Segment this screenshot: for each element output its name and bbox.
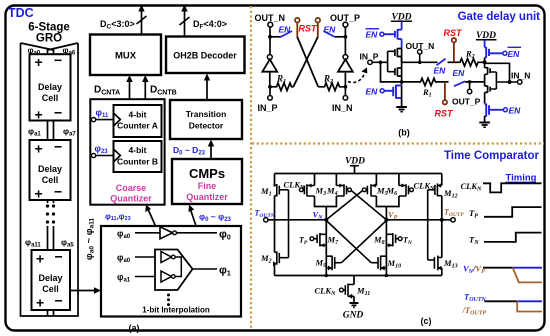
svg-text:EN: EN xyxy=(324,25,337,35)
wire OUT_N node to switch xyxy=(270,36,281,38)
waveform T_P xyxy=(484,207,542,217)
svg-text:4-bit: 4-bit xyxy=(129,145,147,155)
ellipsis dots below polygon xyxy=(167,294,170,307)
svg-text:−: − xyxy=(55,249,63,265)
crossing wire X right-to-left xyxy=(293,37,318,87)
svg-text:EN: EN xyxy=(508,49,521,59)
wire switch to OUT_P to inverter xyxy=(465,81,485,83)
ground symbol (c) xyxy=(353,296,355,303)
transistor PMOS ENbar (blue, left) xyxy=(384,29,402,39)
inverter U1 gate line xyxy=(381,51,395,71)
waveform T_N xyxy=(484,233,542,242)
lower wire rail to R1 xyxy=(402,81,419,83)
M5/M6 drain bus to V_P xyxy=(376,196,399,207)
inverter U1 NMOS xyxy=(395,68,402,77)
wire interpolation to coarse quantizer arrow xyxy=(148,208,156,226)
terminal OUT_P (transistor level) xyxy=(468,80,472,84)
row3 wire in xyxy=(135,276,155,278)
svg-text:EN: EN xyxy=(453,68,466,78)
svg-text:−: − xyxy=(55,293,63,309)
bus slash on D_C xyxy=(137,16,147,24)
junction on IN_N wire xyxy=(508,80,512,84)
switch EN left xyxy=(281,31,293,37)
svg-text:OUT_P: OUT_P xyxy=(452,97,481,107)
svg-text:Gate delay unit: Gate delay unit xyxy=(458,11,541,23)
wire MUX output arrow up xyxy=(141,8,143,35)
inner inverter A xyxy=(161,252,172,263)
svg-text:EN: EN xyxy=(366,87,379,97)
delay cell 3 xyxy=(32,249,71,311)
4-bit Counter A box xyxy=(114,105,162,137)
inverter U2 output column xyxy=(484,74,486,86)
cross wire V_P to M9 gate xyxy=(341,221,386,263)
Coarse Quantizer outer box xyxy=(90,99,164,205)
svg-text:Detector: Detector xyxy=(189,121,224,131)
svg-text:Delay: Delay xyxy=(38,273,62,283)
transistor M9 xyxy=(326,256,341,271)
row1 wire out xyxy=(177,232,218,234)
svg-text:1-bit Interpolation: 1-bit Interpolation xyxy=(142,306,210,315)
svg-text:RST: RST xyxy=(299,24,319,34)
wire after switch xyxy=(448,61,459,63)
svg-text:Cell: Cell xyxy=(42,93,59,103)
terminal IN_N (transistor level) xyxy=(518,80,522,84)
upper wire OUT_N to R2 xyxy=(402,61,438,63)
transistor NMOS EN (blue, bottom right) xyxy=(485,104,504,117)
junction node at lower rail xyxy=(400,80,404,84)
GRO crossing wires at top (bowtie) xyxy=(21,43,54,50)
svg-text:OH2B Decoder: OH2B Decoder xyxy=(173,51,237,61)
RST terminal right xyxy=(316,18,321,23)
transistor M10 xyxy=(371,256,386,271)
M3/M4 drain bus to V_N xyxy=(315,196,337,207)
wire counterA to MUX arrow xyxy=(129,78,131,105)
inverter U1 PMOS xyxy=(395,48,402,57)
transistor M3 xyxy=(314,174,316,186)
panel divider vertical dashed xyxy=(250,6,252,330)
row1 wire in xyxy=(135,232,160,234)
row2 wire in xyxy=(135,256,155,258)
svg-text:EN: EN xyxy=(279,25,292,35)
svg-text:Counter B: Counter B xyxy=(117,157,158,167)
wire delay cell1 to cell2 right xyxy=(53,121,55,141)
GRO loop right rail wire xyxy=(77,43,79,316)
svg-text:(a): (a) xyxy=(129,323,140,333)
MUX box xyxy=(90,35,161,76)
resistor R2 (transistor level) xyxy=(459,59,485,66)
resistor R2 (panel b abstraction) xyxy=(318,83,345,91)
wire stub into delay cell 1 right xyxy=(53,49,55,55)
crossing wire X left-to-right xyxy=(297,37,318,87)
transistor M4 xyxy=(335,174,337,186)
1-bit Interpolation box xyxy=(101,226,241,317)
RST terminal lower xyxy=(444,82,446,100)
svg-text:DC<3:0>: DC<3:0> xyxy=(100,19,135,31)
svg-text:Fine: Fine xyxy=(198,181,217,191)
svg-text:EN: EN xyxy=(509,105,522,115)
cross-coupling wire M4 gate to V_P xyxy=(351,191,386,220)
wire down to inverter xyxy=(401,39,403,49)
wire stubs below cell3 to loop bottom xyxy=(47,310,49,316)
inner inverter B xyxy=(161,271,172,282)
inverter row1 xyxy=(160,227,173,239)
svg-text:MUX: MUX xyxy=(115,51,137,62)
wire IN_P node down to lower rail xyxy=(381,62,402,82)
cross wire V_N to M10 gate xyxy=(326,221,371,263)
junction dots bottom rail xyxy=(325,274,328,277)
node R2/PMOS junction xyxy=(484,57,486,67)
transistor M11 xyxy=(353,276,355,285)
svg-text:+: + xyxy=(35,107,43,123)
wire OUT_N down xyxy=(269,27,271,37)
wire NMOS to EN nmos xyxy=(484,92,486,103)
dashed zoom arrow xyxy=(348,71,366,83)
input phi_11 terminal and wire xyxy=(92,118,96,122)
OH2B Decoder box xyxy=(166,37,245,74)
wire delay cell3 output arrow to interpolation xyxy=(70,290,96,292)
svg-text:(b): (b) xyxy=(398,128,410,138)
loop wire to IN_N xyxy=(485,63,510,82)
junction node OUT_P xyxy=(344,35,348,39)
ground symbol right column xyxy=(479,123,490,128)
VDD rail xyxy=(275,173,442,175)
resistor R1 (transistor level) xyxy=(419,78,440,85)
GRO loop bottom wire xyxy=(20,315,79,317)
inverter U1 output column xyxy=(401,49,403,63)
switch EN right xyxy=(324,31,336,37)
svg-text:DF<4:0>: DF<4:0> xyxy=(193,19,227,31)
svg-text:IN_P: IN_P xyxy=(258,103,278,113)
M12/M13 gate line xyxy=(427,190,429,260)
GRO loop left rail wire xyxy=(20,43,22,316)
waveform V_N (blue) and V_P (brown) xyxy=(483,267,513,269)
V_N wire left xyxy=(268,219,326,221)
transistor PMOS ENbar (blue, right) xyxy=(485,47,503,58)
svg-text:GND: GND xyxy=(343,311,364,321)
CMPs Fine Quantizer box xyxy=(172,159,242,204)
wire delay cell1 to cell2 left xyxy=(47,121,49,141)
terminal IN_P xyxy=(269,87,271,96)
wire interpolation to CMPs arrow xyxy=(190,208,196,226)
row2/3 output wire xyxy=(193,268,218,270)
svg-text:+: + xyxy=(35,141,43,157)
RST terminal upper xyxy=(452,38,456,42)
joining wire of inner inverters xyxy=(175,257,181,277)
wire to ground right xyxy=(484,116,486,123)
svg-text:−: − xyxy=(54,105,62,121)
junction at R2 right xyxy=(344,85,348,89)
transistor M12 xyxy=(441,174,443,186)
svg-text:RST: RST xyxy=(435,109,455,119)
terminal T_OUTP xyxy=(451,218,455,222)
buffer inverter right (up) xyxy=(344,37,346,55)
transistor M2 xyxy=(274,196,276,253)
ellipsis dots between delay cells xyxy=(46,204,55,223)
svg-text:4-bit: 4-bit xyxy=(129,110,147,120)
RST terminal left xyxy=(295,18,300,23)
wire R1 to RST junction xyxy=(440,81,449,83)
wire stubs above cell3 xyxy=(47,226,49,250)
waveform T_OUTN (blue) and /T_OUTP (brown) xyxy=(484,300,517,302)
buffer inverter left (up) xyxy=(269,37,271,55)
svg-text:+: + xyxy=(35,54,43,70)
counter B clock wedge xyxy=(114,149,121,162)
svg-text:IN_N: IN_N xyxy=(332,103,353,113)
svg-text:RST: RST xyxy=(444,28,464,38)
inverter U2 gate line xyxy=(490,72,517,89)
input phi_23 terminal and wire xyxy=(92,153,96,157)
svg-text:Quantizer: Quantizer xyxy=(186,192,228,202)
svg-text:+: + xyxy=(36,295,44,311)
svg-text:(c): (c) xyxy=(421,316,432,326)
delay cell 2 xyxy=(30,139,71,202)
wire to ground xyxy=(401,85,403,107)
svg-text:Delay: Delay xyxy=(38,164,62,174)
ground symbol left column xyxy=(396,107,407,112)
switch EN upper xyxy=(437,59,446,66)
wire CMPs to TD arrow xyxy=(210,143,212,160)
svg-text:Coarse: Coarse xyxy=(116,183,147,193)
svg-text:Transition: Transition xyxy=(186,109,227,119)
terminal IN_N xyxy=(344,87,346,96)
junction at R1 left xyxy=(268,85,272,89)
wire decoder output arrow up xyxy=(184,8,186,37)
counter A clock wedge xyxy=(114,113,121,126)
delay cell 1 xyxy=(30,52,71,123)
svg-text:−: − xyxy=(54,139,62,155)
inverter U2 NMOS xyxy=(485,86,491,93)
wire TD to decoder arrow xyxy=(206,76,208,100)
svg-text:EN: EN xyxy=(434,66,447,76)
transistor M6 xyxy=(398,174,400,186)
resistor R1 (panel b abstraction) xyxy=(270,83,294,91)
svg-text:+: + xyxy=(35,186,43,202)
wire counterA to counterB stub xyxy=(143,137,145,141)
wire OUT_P node to switch xyxy=(335,36,345,38)
waveform CLK_N xyxy=(483,183,542,192)
svg-text:IN_N: IN_N xyxy=(511,71,530,81)
inverter U2 (right, mirrored) PMOS xyxy=(485,67,491,74)
transistor NMOS EN (blue, bottom left) xyxy=(384,85,401,99)
interpolator polygon xyxy=(155,250,193,291)
svg-text:EN: EN xyxy=(366,30,379,40)
svg-text:Counter A: Counter A xyxy=(117,121,158,131)
M1/M2 gate line xyxy=(288,190,290,258)
panel divider horizontal dashed xyxy=(252,142,544,144)
wire counterB to MUX arrow xyxy=(144,78,146,105)
svg-text:TDC: TDC xyxy=(8,6,34,20)
svg-text:Time Comparator: Time Comparator xyxy=(444,150,540,162)
V_P to T_OUTP wire xyxy=(386,219,450,221)
wire stubs below cell2 xyxy=(47,200,49,203)
junction node OUT_N xyxy=(268,35,272,39)
wire stub into delay cell 1 left xyxy=(47,49,49,55)
svg-text:Delay: Delay xyxy=(38,82,62,92)
transistor M1 xyxy=(274,174,276,186)
Transition Detector box xyxy=(170,100,242,139)
transistor M13 xyxy=(441,196,443,258)
cross-coupling wire M5 gate to V_N xyxy=(326,191,362,220)
svg-text:−: − xyxy=(54,52,62,68)
4-bit Counter B box xyxy=(114,141,162,172)
switch EN lower xyxy=(454,81,465,86)
svg-text:−: − xyxy=(54,184,62,200)
wire VDD down xyxy=(401,22,403,30)
wire OUT_P down xyxy=(344,27,346,37)
svg-text:Quantizer: Quantizer xyxy=(110,194,152,204)
bottom rail xyxy=(275,275,442,277)
svg-text:+: + xyxy=(36,251,44,267)
svg-text:GRO: GRO xyxy=(36,33,62,45)
transistor M5 xyxy=(375,174,377,186)
bus slash on D_F xyxy=(180,17,190,25)
svg-text:CMPs: CMPs xyxy=(189,166,225,181)
